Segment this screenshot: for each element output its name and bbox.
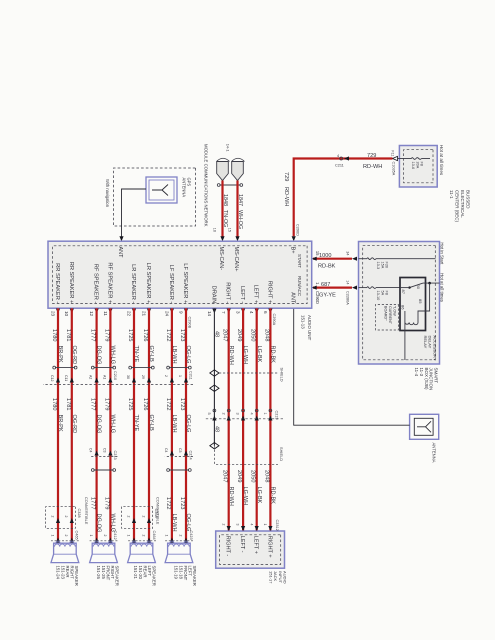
svg-text:1: 1 <box>263 413 267 415</box>
svg-text:151-21: 151-21 <box>133 566 138 580</box>
svg-text:1777: 1777 <box>90 497 96 509</box>
svg-text:1726: 1726 <box>142 398 148 410</box>
svg-text:1780: 1780 <box>51 329 57 341</box>
svg-text:2049: 2049 <box>236 470 242 482</box>
svg-text:1726: 1726 <box>142 329 148 341</box>
dashed connector line (row 1) <box>43 384 193 386</box>
twisted pair symbol on MS-CAN wires <box>220 184 241 186</box>
splice diamond on drain (shield 2) <box>210 385 219 391</box>
svg-text:20A: 20A <box>415 162 419 169</box>
svg-text:FRONT: FRONT <box>183 566 188 581</box>
svg-text:2050: 2050 <box>250 329 256 341</box>
svg-text:24: 24 <box>164 311 169 317</box>
shield (dashed) around RIGHT/LEFT pair, segment 1 <box>219 368 285 382</box>
svg-text:DG-OG: DG-OG <box>96 415 102 434</box>
connector C290D pin 1 at audio unit RUN/ACC <box>312 282 320 304</box>
svg-text:1723: 1723 <box>179 329 185 341</box>
network connector plug (MS-CAN-) <box>217 162 229 181</box>
connector C465 arrows at speaker <box>50 535 78 543</box>
svg-text:SPEAKER: SPEAKER <box>74 566 79 586</box>
GPS antenna module (with navigation, dashed) <box>114 168 196 226</box>
svg-text:RF SPEAKER +: RF SPEAKER + <box>106 262 112 304</box>
svg-text:AUDIO: AUDIO <box>283 571 288 584</box>
svg-text:LB-WH: LB-WH <box>171 346 177 364</box>
svg-text:F11: F11 <box>391 150 395 156</box>
audio input jack <box>216 531 285 568</box>
power box: Bussed Electrical Center (BEC) <box>399 146 437 188</box>
svg-text:LEFT +: LEFT + <box>253 536 259 554</box>
svg-text:LEFT +: LEFT + <box>253 285 259 304</box>
pass-through connector C358 (dashed boundary) <box>122 507 153 529</box>
svg-text:30: 30 <box>416 285 421 290</box>
svg-text:LEFT -: LEFT - <box>239 536 245 553</box>
svg-text:LEFT: LEFT <box>188 566 193 577</box>
svg-text:11: 11 <box>103 311 108 316</box>
svg-text:AUDIO UNIT: AUDIO UNIT <box>307 315 312 341</box>
svg-text:1777: 1777 <box>90 398 96 410</box>
component name BUSSED ELECTRICAL CENTER (BEC) 11-1 <box>449 190 471 223</box>
wire labels after C214 <box>165 497 191 532</box>
svg-text:C210: C210 <box>113 371 117 380</box>
svg-text:C290D: C290D <box>295 224 299 236</box>
svg-text:48: 48 <box>214 426 220 432</box>
wire 2050 LG-BK (audio LEFT plus) <box>250 308 262 531</box>
svg-text:BUSSED: BUSSED <box>466 190 471 209</box>
accessory delay relay inside SJB <box>400 278 440 361</box>
connector C2312 arrow pin 1 (RIGHT +) <box>263 524 273 532</box>
svg-text:14: 14 <box>346 280 350 284</box>
svg-text:11-3: 11-3 <box>419 368 424 377</box>
svg-text:9: 9 <box>178 311 183 314</box>
svg-text:2: 2 <box>141 516 145 518</box>
svg-text:RD-BK: RD-BK <box>318 264 336 270</box>
svg-text:RIGHT +: RIGHT + <box>266 281 272 304</box>
connector C2312 arrow pin 3 (LEFT -) <box>236 524 246 532</box>
speaker RIGHT REAR <box>51 541 79 562</box>
svg-text:87: 87 <box>401 290 406 295</box>
svg-text:OG-LG: OG-LG <box>185 514 191 532</box>
svg-text:LF SPEAKER -: LF SPEAKER - <box>168 265 174 304</box>
svg-text:1725: 1725 <box>127 398 133 410</box>
svg-text:RD-WH: RD-WH <box>228 346 234 365</box>
svg-text:151-13: 151-13 <box>300 315 305 329</box>
svg-text:151-19: 151-19 <box>174 566 179 580</box>
connector C412 arrows at speaker <box>89 535 117 543</box>
svg-text:GPS: GPS <box>187 178 192 187</box>
svg-text:SPEAKER: SPEAKER <box>192 566 197 586</box>
svg-text:30: 30 <box>126 375 130 379</box>
svg-text:7: 7 <box>221 311 226 314</box>
speaker RIGHT FRONT <box>90 541 118 562</box>
svg-text:Hot at all times: Hot at all times <box>440 273 445 303</box>
svg-text:4: 4 <box>249 524 253 526</box>
svg-text:RELAY: RELAY <box>423 336 428 349</box>
svg-text:BR-PK: BR-PK <box>57 346 63 363</box>
node: module communications network drops 14-1 <box>217 144 245 162</box>
svg-text:2048: 2048 <box>263 329 269 341</box>
svg-text:2: 2 <box>50 516 54 518</box>
svg-text:F8: F8 <box>420 162 424 166</box>
svg-text:2050: 2050 <box>250 470 256 482</box>
svg-text:13-10: 13-10 <box>376 291 380 301</box>
wire 687 GY-YE (SJB F8 to audio unit RUN/ACC) <box>313 287 352 289</box>
svg-text:ANTENNA: ANTENNA <box>182 178 187 198</box>
svg-text:C11: C11 <box>64 375 68 381</box>
svg-text:ANT: ANT <box>117 247 123 259</box>
svg-text:LG-WH: LG-WH <box>242 346 248 365</box>
in-line connector row 1 arrows (RF pair) <box>89 375 113 383</box>
wire 1722 LB-WH (LF SPEAKER minus) <box>165 308 177 543</box>
connector C464 arrows at speaker <box>126 535 156 543</box>
svg-text:15: 15 <box>315 251 320 256</box>
connector C423 arrows at speaker <box>164 535 193 543</box>
svg-text:1: 1 <box>178 375 182 377</box>
in-line connector C214 arrows <box>164 448 193 457</box>
svg-text:GY-LB: GY-LB <box>148 415 154 432</box>
low current board (dashed) inside SJB <box>376 305 399 331</box>
wire 1725 TN-YE (LR SPEAKER minus) <box>127 308 139 543</box>
svg-text:C4: C4 <box>164 448 168 453</box>
svg-text:1722: 1722 <box>165 497 171 509</box>
wire 1777 DG-OG (RF SPEAKER minus) <box>90 308 102 543</box>
svg-text:3: 3 <box>236 413 240 415</box>
svg-text:1781: 1781 <box>65 329 71 341</box>
svg-text:C464: C464 <box>152 531 156 540</box>
svg-text:1: 1 <box>126 535 130 537</box>
svg-text:C2280A: C2280A <box>346 291 350 305</box>
GPS antenna name label <box>182 178 192 198</box>
in-line connector row 1, twisted pair symbol (RR pair) <box>55 367 75 369</box>
wire 2049 LG-WH (audio LEFT minus) <box>236 308 248 531</box>
svg-text:11-1: 11-1 <box>449 190 454 199</box>
wire 729 RD-WH (BEC to audio unit B+) <box>294 159 393 237</box>
svg-text:RD-WH: RD-WH <box>283 187 289 206</box>
svg-text:151-25: 151-25 <box>101 566 106 580</box>
svg-text:SPEAKER: SPEAKER <box>152 566 157 586</box>
svg-text:RR SPEAKER -: RR SPEAKER - <box>54 263 60 303</box>
antenna (radio mast antenna) <box>410 414 439 439</box>
speaker name SPEAKER RIGHT FRONT <box>96 566 119 586</box>
svg-text:13-3: 13-3 <box>376 262 380 270</box>
in-line connector row 1 arrows (RR pair) <box>50 375 74 383</box>
svg-text:2: 2 <box>64 516 68 518</box>
svg-text:C4: C4 <box>89 448 93 453</box>
svg-text:C12: C12 <box>50 375 54 381</box>
svg-text:1: 1 <box>263 524 267 526</box>
svg-text:1723: 1723 <box>179 398 185 410</box>
svg-text:C211: C211 <box>335 163 344 167</box>
svg-text:ACCESSORY: ACCESSORY <box>432 336 437 361</box>
in-line connector row 1, twisted pair symbol (LR pair) <box>131 367 152 369</box>
svg-text:687: 687 <box>321 282 330 288</box>
svg-text:23: 23 <box>50 311 55 317</box>
svg-text:1: 1 <box>164 535 168 537</box>
connector C2312 arrow pin 2 (RIGHT -) <box>221 524 231 532</box>
in-line connector row 1, twisted pair symbol (LF pair) <box>169 367 189 369</box>
svg-text:A1: A1 <box>102 375 106 379</box>
svg-text:RD-WH: RD-WH <box>363 164 382 170</box>
wire 48 (drain) <box>212 308 219 446</box>
svg-text:48: 48 <box>214 331 220 337</box>
component name SMART JUNCTION BOX (SJB) 11-3 11-4 <box>414 368 438 391</box>
svg-text:10: 10 <box>64 311 69 317</box>
svg-text:LEFT -: LEFT - <box>239 286 245 303</box>
svg-text:DG-OG: DG-OG <box>96 514 102 533</box>
svg-text:RIGHT: RIGHT <box>110 566 115 580</box>
svg-text:RUN/ACC: RUN/ACC <box>297 276 302 296</box>
svg-text:WH-OG: WH-OG <box>237 210 243 229</box>
svg-text:MODULE COMMUNICATIONS NETWORK: MODULE COMMUNICATIONS NETWORK <box>204 144 209 227</box>
svg-text:TN-YE: TN-YE <box>133 415 139 432</box>
svg-text:RR SPEAKER +: RR SPEAKER + <box>68 262 74 304</box>
svg-text:GY-LB: GY-LB <box>148 346 154 363</box>
connector C2312 arrow pin 4 (LEFT +) <box>249 524 258 532</box>
svg-text:JACK: JACK <box>273 571 278 582</box>
svg-text:CURRENT: CURRENT <box>388 306 392 325</box>
svg-text:151-23: 151-23 <box>60 566 65 580</box>
wire 1780 BR-PK (RR SPEAKER minus) <box>51 308 63 543</box>
svg-text:C213: C213 <box>113 451 117 460</box>
wire 1848 TN-OG (MS-CAN-) <box>222 181 228 237</box>
svg-text:2047: 2047 <box>222 329 228 341</box>
network connector plug (MS-CAN+) <box>232 162 244 181</box>
connector C2280A pins 34 / 14 at SJB bottom <box>346 251 358 305</box>
svg-text:4: 4 <box>249 311 254 314</box>
wire labels after C213 <box>90 497 116 532</box>
svg-text:WH-LG: WH-LG <box>110 346 116 365</box>
svg-text:C328: C328 <box>77 509 81 518</box>
svg-text:Hot in Start: Hot in Start <box>440 242 445 265</box>
relay name ACCESSORY DELAY RELAY <box>423 336 438 361</box>
svg-text:2049: 2049 <box>236 329 242 341</box>
svg-text:WH-LG: WH-LG <box>110 415 116 434</box>
svg-text:151-18: 151-18 <box>178 566 183 580</box>
svg-text:INPUT: INPUT <box>278 571 283 584</box>
svg-text:BOARD": BOARD" <box>383 306 387 321</box>
svg-text:1722: 1722 <box>165 398 171 410</box>
shield (dashed) segment 2 <box>215 446 284 465</box>
in-line connector row 1 arrows (LR pair) <box>126 375 151 383</box>
svg-text:C290A: C290A <box>272 314 276 326</box>
svg-text:15: 15 <box>228 228 232 232</box>
svg-text:151-20: 151-20 <box>138 566 143 580</box>
wire 1781 OG-RD (RR SPEAKER plus) <box>65 308 77 543</box>
svg-text:86: 86 <box>401 305 406 310</box>
fuse F8 5A inside SJB <box>359 287 401 300</box>
svg-text:SMART: SMART <box>433 368 438 384</box>
svg-text:"LOW: "LOW <box>393 306 397 316</box>
svg-text:2: 2 <box>126 516 130 518</box>
speaker name SPEAKER LEFT FRONT <box>174 566 197 586</box>
svg-text:C290B: C290B <box>188 317 192 329</box>
fuse F20 15A inside SJB <box>359 258 436 269</box>
svg-text:ANTENNA: ANTENNA <box>432 443 437 463</box>
svg-text:4: 4 <box>337 154 339 158</box>
splice diamond on drain (shield tail) <box>210 443 219 449</box>
svg-text:729: 729 <box>283 172 289 181</box>
svg-text:2: 2 <box>221 524 225 526</box>
svg-text:ELECTRICAL: ELECTRICAL <box>460 190 465 218</box>
component name AUDIO INPUT JACK 151-17 <box>268 571 287 584</box>
wire 1723 OG-LG (LF SPEAKER plus) <box>179 308 191 543</box>
wire 1000 RD-BK (SJB F20 to audio unit START) <box>313 258 352 260</box>
in-line connector row 1, twisted pair symbol (RF pair) <box>94 367 114 369</box>
wire 1779 WH-LG (RF SPEAKER plus) <box>103 308 115 543</box>
svg-text:3: 3 <box>236 311 241 314</box>
splice diamond on drain (shield 1) <box>210 370 219 376</box>
svg-text:RD-BK: RD-BK <box>270 346 276 364</box>
wire: audio unit ANT to antenna (coax) <box>294 308 410 425</box>
svg-text:With navigation: With navigation <box>105 179 110 208</box>
svg-text:1777: 1777 <box>90 329 96 341</box>
svg-text:OG-RD: OG-RD <box>71 415 77 434</box>
svg-text:C2312: C2312 <box>275 520 279 531</box>
pin 15 at audio unit START <box>312 251 320 261</box>
svg-text:29: 29 <box>141 375 145 379</box>
svg-text:151-26: 151-26 <box>96 566 101 580</box>
svg-text:1: 1 <box>89 535 93 537</box>
wire 2048 RD-BK (audio RIGHT plus) <box>263 308 275 531</box>
power box: Smart Junction Box (SJB) <box>359 242 440 365</box>
svg-text:14-1: 14-1 <box>226 144 231 152</box>
svg-text:1723: 1723 <box>179 497 185 509</box>
svg-text:Hot at all times: Hot at all times <box>439 145 444 176</box>
pin 16 at audio unit MS-CAN- <box>213 228 225 241</box>
svg-text:1780: 1780 <box>51 398 57 410</box>
svg-text:3: 3 <box>236 524 240 526</box>
svg-text:C1035A: C1035A <box>392 162 396 176</box>
svg-text:START: START <box>297 254 302 268</box>
svg-text:LR SPEAKER -: LR SPEAKER - <box>130 264 136 303</box>
svg-text:CONVERTIBLE: CONVERTIBLE <box>84 497 89 525</box>
svg-text:A2: A2 <box>89 375 93 379</box>
svg-text:1: 1 <box>50 535 54 537</box>
svg-text:RF SPEAKER -: RF SPEAKER - <box>93 264 99 304</box>
pin 15 C290B at audio unit MS-CAN+ <box>228 228 240 241</box>
svg-text:1000: 1000 <box>319 253 331 259</box>
svg-text:DG-OG: DG-OG <box>96 346 102 365</box>
svg-text:LG-BK: LG-BK <box>256 487 262 504</box>
svg-text:SHIELD: SHIELD <box>279 447 284 461</box>
svg-text:REAR: REAR <box>142 566 147 578</box>
svg-text:DRAIN: DRAIN <box>210 286 216 304</box>
svg-text:1779: 1779 <box>103 497 109 509</box>
svg-text:C3: C3 <box>178 448 182 453</box>
pass-through connector C328 (dashed boundary) <box>46 507 76 529</box>
wire 2047 RD-WH (audio RIGHT minus) <box>222 308 234 531</box>
svg-text:16: 16 <box>213 228 217 232</box>
in-line connector C219 (audio lines) <box>205 409 283 420</box>
svg-text:1779: 1779 <box>103 398 109 410</box>
wire label 1000 RD-BK <box>318 253 336 269</box>
svg-text:C3: C3 <box>102 448 106 453</box>
svg-text:LB-WH: LB-WH <box>171 415 177 433</box>
svg-text:85: 85 <box>418 299 423 304</box>
svg-text:2: 2 <box>221 413 225 415</box>
speaker name SPEAKER LEFT REAR <box>133 566 156 586</box>
GPS antenna symbol box <box>146 177 177 203</box>
svg-text:34: 34 <box>346 251 350 255</box>
svg-text:GY-YE: GY-YE <box>319 293 336 299</box>
svg-text:RD-WH: RD-WH <box>228 487 234 506</box>
svg-text:C423: C423 <box>189 531 193 540</box>
svg-text:21: 21 <box>141 311 146 317</box>
svg-text:2048: 2048 <box>263 470 269 482</box>
svg-text:151-24: 151-24 <box>56 566 61 580</box>
speaker name SPEAKER RIGHT REAR <box>56 566 79 586</box>
wire label 687 GY-YE <box>319 282 336 298</box>
connector C290D at audio unit B+ pin <box>292 224 300 241</box>
svg-text:C290D: C290D <box>315 291 320 304</box>
svg-text:FRONT: FRONT <box>105 566 110 581</box>
pin 13 at audio unit GPS ANT <box>113 236 124 245</box>
wire 1726 GY-LB (LR SPEAKER plus) <box>142 308 154 543</box>
svg-text:1725: 1725 <box>127 329 133 341</box>
svg-text:5A: 5A <box>380 291 384 296</box>
svg-text:C412: C412 <box>113 531 117 540</box>
audio unit (radio head unit) <box>48 241 312 308</box>
svg-text:RIGHT -: RIGHT - <box>225 282 231 303</box>
svg-text:LB-WH: LB-WH <box>171 514 177 532</box>
svg-text:SHIELD: SHIELD <box>280 368 285 382</box>
svg-text:LG-BK: LG-BK <box>256 346 262 363</box>
svg-text:RIGHT: RIGHT <box>70 566 75 580</box>
svg-text:2047: 2047 <box>222 470 228 482</box>
svg-text:F20: F20 <box>385 262 389 269</box>
in-line connector row 1 arrows (LF pair) <box>164 375 188 383</box>
speaker LEFT REAR <box>128 541 156 562</box>
svg-text:4: 4 <box>249 413 253 415</box>
svg-text:C211: C211 <box>188 371 192 380</box>
in-line connector C211 pin 4 on wire 729 <box>335 154 349 168</box>
svg-text:2: 2 <box>103 535 107 537</box>
svg-text:11-4: 11-4 <box>414 368 419 377</box>
svg-text:13-6: 13-6 <box>411 162 415 170</box>
svg-text:2: 2 <box>141 535 145 537</box>
svg-text:REAR: REAR <box>65 566 70 578</box>
svg-text:1848: 1848 <box>222 194 228 206</box>
svg-text:LG-WH: LG-WH <box>242 487 248 506</box>
svg-text:BR-PK: BR-PK <box>57 415 63 432</box>
wire: GPS antenna to audio unit ANT (nav) <box>122 189 147 237</box>
svg-text:RD-BK: RD-BK <box>270 487 276 505</box>
svg-text:TN-OG: TN-OG <box>222 210 228 227</box>
svg-text:22: 22 <box>126 311 131 317</box>
svg-text:12: 12 <box>89 311 94 317</box>
svg-text:RIGHT +: RIGHT + <box>266 536 272 558</box>
in-line connector row 2 twisted pair symbol (C213) <box>94 469 114 471</box>
svg-text:MS-CAN-: MS-CAN- <box>218 247 224 271</box>
svg-text:ANT: ANT <box>289 292 295 304</box>
svg-text:151-17: 151-17 <box>268 571 273 584</box>
svg-text:CENTER (BEC): CENTER (BEC) <box>455 190 460 223</box>
fuse F8 20A inside BEC <box>399 158 430 169</box>
svg-text:C219: C219 <box>275 411 279 420</box>
svg-text:DELAY: DELAY <box>428 336 433 349</box>
svg-text:CONVERTIBLE: CONVERTIBLE <box>155 497 160 525</box>
svg-text:1781: 1781 <box>65 398 71 410</box>
in-line connector C213 arrows <box>89 448 118 457</box>
svg-text:WH-LG: WH-LG <box>110 514 116 533</box>
svg-text:LEFT: LEFT <box>147 566 152 577</box>
speaker LEFT FRONT <box>165 541 193 562</box>
svg-text:14: 14 <box>207 311 212 317</box>
svg-text:6: 6 <box>263 311 268 314</box>
svg-text:2: 2 <box>164 375 168 377</box>
svg-text:F8: F8 <box>385 291 389 295</box>
svg-text:TN-YE: TN-YE <box>133 346 139 363</box>
svg-text:JUNCTION: JUNCTION <box>429 368 434 391</box>
